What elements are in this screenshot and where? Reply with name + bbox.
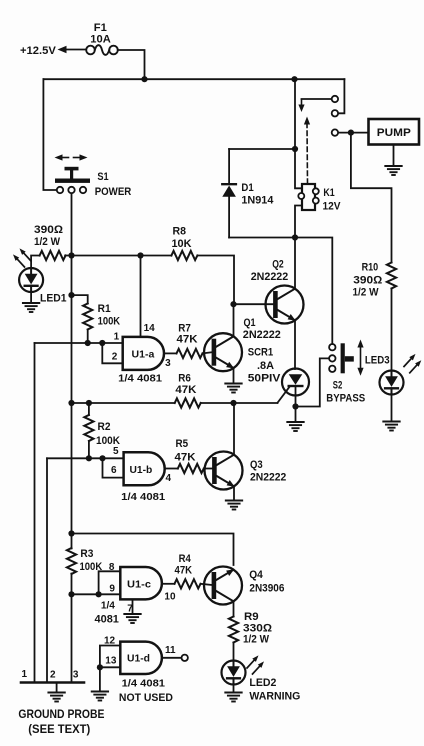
transistor Q2 2N2222 — [266, 286, 304, 324]
ground probe bar — [21, 681, 84, 684]
ground below LED1 — [30, 292, 32, 303]
node Q2 base junction — [230, 301, 236, 307]
svg-text:S1: S1 — [97, 171, 108, 183]
LED3 — [380, 371, 404, 395]
svg-text:4: 4 — [166, 473, 172, 484]
wire: U1-a output to R7 — [164, 352, 176, 354]
svg-text:1: 1 — [114, 332, 120, 343]
gate U1-c — [120, 567, 162, 599]
ground below pump — [393, 145, 395, 167]
wire Q3 emitter to ground — [233, 487, 235, 501]
op-amp gate U1-a — [123, 337, 164, 370]
svg-text:2: 2 — [112, 352, 118, 363]
pushbutton S2 plunger — [341, 343, 345, 373]
svg-text:POWER: POWER — [95, 186, 132, 198]
svg-text:U1-c: U1-c — [127, 580, 151, 591]
wire to Q4 emitter — [72, 534, 234, 566]
svg-text:R3: R3 — [80, 548, 93, 560]
wire pin 14 — [140, 256, 142, 338]
svg-text:7: 7 — [127, 604, 133, 615]
svg-text:1/2 W: 1/2 W — [353, 287, 380, 299]
svg-text:12: 12 — [104, 636, 116, 647]
svg-text:390Ω: 390Ω — [353, 275, 383, 287]
ground below LED3 — [391, 395, 393, 422]
wire to R1 — [72, 295, 88, 303]
wire: D1 top branch — [294, 79, 296, 149]
svg-text:47K: 47K — [175, 452, 196, 464]
svg-text:D1: D1 — [241, 182, 253, 194]
node: rail/R6 wire — [68, 400, 74, 406]
gate U1-d — [120, 642, 162, 674]
+12.5V arrow — [64, 49, 86, 51]
svg-text:1/4 4081: 1/4 4081 — [121, 492, 165, 503]
svg-text:NOT USED: NOT USED — [119, 692, 173, 704]
wire fuse to rail — [118, 50, 145, 79]
svg-text:Q4: Q4 — [249, 569, 263, 581]
svg-text:R8: R8 — [173, 226, 187, 238]
wire pin 7 to ground — [132, 599, 134, 614]
svg-text:2N2222: 2N2222 — [251, 271, 289, 283]
svg-text:47K: 47K — [175, 384, 196, 396]
svg-text:U1-b: U1-b — [130, 465, 153, 476]
resistor R6 47K — [175, 398, 201, 407]
transistor Q4 2N3906 — [204, 567, 242, 605]
wire Q2 collector up — [294, 238, 296, 289]
svg-text:2N2222: 2N2222 — [243, 329, 281, 341]
wire: down to switch S1 — [43, 79, 55, 190]
wire: U1-b pin5 input — [47, 457, 124, 459]
svg-text:R10: R10 — [362, 262, 379, 274]
svg-text:11: 11 — [165, 645, 176, 656]
svg-text:+12.5V: +12.5V — [20, 45, 56, 57]
wire: y=255.5 to R8 — [72, 255, 172, 257]
wire: U1-c output to R4 — [162, 583, 175, 585]
svg-text:Q1: Q1 — [244, 317, 256, 329]
node: SCR gate / Q3 collector — [230, 400, 236, 406]
svg-text:9: 9 — [109, 584, 115, 595]
node: pin2 tie — [99, 340, 105, 346]
LED1 — [19, 268, 43, 292]
svg-text:390Ω: 390Ω — [34, 224, 64, 236]
svg-text:F1: F1 — [94, 22, 107, 34]
resistor R5 47K — [178, 464, 204, 473]
wire y=403 to R6 — [72, 402, 175, 404]
wire pin 6 stub — [103, 458, 124, 477]
svg-text:47K: 47K — [177, 334, 198, 346]
svg-text:50PIV: 50PIV — [248, 373, 281, 385]
svg-text:R2: R2 — [98, 421, 111, 433]
svg-text:K1: K1 — [323, 187, 334, 199]
svg-text:5: 5 — [113, 446, 119, 457]
LED2 — [222, 661, 246, 685]
LED1 emission arrows — [13, 254, 25, 267]
svg-text:1: 1 — [22, 669, 28, 680]
wire: U1-c pin9 input — [72, 593, 121, 595]
svg-text:PUMP: PUMP — [377, 127, 411, 139]
svg-text:BYPASS: BYPASS — [326, 393, 365, 405]
resistor R3 100K (in rail) — [67, 548, 76, 574]
wire: main left rail — [71, 194, 73, 549]
svg-text:Q2: Q2 — [272, 259, 284, 271]
svg-text:1/2 W: 1/2 W — [243, 634, 270, 646]
pushbutton S2 contacts — [329, 344, 335, 350]
svg-text:13: 13 — [105, 656, 117, 667]
node: SCR cathode — [292, 403, 298, 409]
svg-text:WARNING: WARNING — [249, 691, 300, 703]
relay coil K1 12V — [302, 184, 315, 210]
svg-text:R1: R1 — [98, 303, 111, 315]
svg-text:U1-a: U1-a — [132, 350, 155, 361]
wire pin 2 stub — [102, 343, 122, 363]
svg-text:S2: S2 — [333, 380, 343, 392]
node: relay branch junction — [291, 76, 297, 82]
wire: probe line 2 — [46, 458, 48, 682]
wire: +12V horizontal rail — [43, 78, 344, 80]
node: rail/R1 junction — [68, 292, 74, 298]
relay linkage dashed — [306, 124, 309, 184]
wire pin 13 stub — [100, 666, 120, 668]
wire Q4 collector down to R9 — [233, 601, 235, 616]
wire Q2 emitter to SCR — [294, 320, 296, 369]
wire Q2 base — [234, 303, 274, 305]
svg-text:R6: R6 — [178, 373, 191, 385]
node: R2 top — [86, 400, 92, 406]
resistor R9 330ohm — [229, 617, 238, 643]
resistor R8 10K — [171, 251, 197, 260]
wire: 390ohm branch at y=255.5 — [65, 255, 71, 257]
wire pin 12 stub — [100, 646, 120, 692]
ground below probe bar — [56, 683, 58, 693]
svg-text:100K: 100K — [98, 316, 121, 328]
ground below SCR — [295, 407, 297, 423]
wire: probe line 1 — [34, 343, 36, 683]
resistor R7 47K — [177, 349, 203, 358]
svg-text:1/2 W: 1/2 W — [34, 236, 61, 248]
svg-text:SCR1: SCR1 — [248, 347, 273, 359]
svg-text:1/4 4081: 1/4 4081 — [118, 374, 162, 385]
wire: U1-d output pin 11 — [162, 657, 181, 659]
svg-text:LED2: LED2 — [249, 677, 276, 689]
transistor Q3 2N2222 — [205, 452, 243, 490]
wire: U1-a pin1 input — [35, 342, 123, 344]
resistor R10 390ohm — [387, 263, 396, 289]
diode D1 1N914 — [222, 183, 236, 185]
svg-text:Q3: Q3 — [250, 459, 263, 471]
fuse F1 — [86, 46, 95, 55]
svg-text:LED1: LED1 — [40, 293, 67, 305]
svg-text:R9: R9 — [244, 611, 259, 623]
LED3 emission arrows — [404, 354, 416, 367]
ground Q3 — [226, 501, 242, 510]
svg-text:1/4: 1/4 — [101, 601, 115, 612]
svg-text:1N914: 1N914 — [241, 195, 274, 207]
svg-text:(SEE TEXT): (SEE TEXT) — [28, 724, 90, 736]
ground U1-c pin7 — [124, 614, 140, 623]
ground below LED2 — [233, 685, 235, 693]
svg-text:2: 2 — [50, 670, 56, 681]
ground Q1 — [225, 384, 241, 393]
node: fuse/rail junction — [141, 76, 147, 82]
svg-text:R5: R5 — [176, 438, 189, 450]
svg-text:10: 10 — [164, 592, 176, 603]
resistor 390ohm (LED1) — [40, 251, 66, 260]
PUMP box — [369, 119, 420, 145]
node: rail/390 junction — [68, 252, 74, 258]
resistor R2 100K — [88, 403, 90, 415]
relay contacts K1 — [332, 96, 338, 102]
wire: relay coil feed — [295, 149, 302, 188]
node: rail/Q4 wire — [68, 530, 74, 536]
svg-text:47K: 47K — [175, 565, 193, 577]
node: pin14 junction — [137, 252, 143, 258]
wire Q1 emitter to ground — [233, 368, 235, 384]
svg-text:3: 3 — [165, 358, 171, 369]
wire: U1-b output to R5 — [165, 468, 178, 470]
wire: S2 top contact up to relay node — [295, 238, 332, 345]
svg-text:14: 14 — [144, 323, 156, 334]
node: pump branch — [348, 130, 354, 136]
svg-text:R4: R4 — [179, 553, 192, 565]
svg-text:1/4 4081: 1/4 4081 — [122, 679, 166, 690]
svg-text:2N2222: 2N2222 — [250, 472, 286, 484]
gate U1-b — [124, 452, 165, 485]
resistor R4 47K — [175, 579, 201, 588]
svg-text:6: 6 — [111, 465, 117, 476]
svg-text:10A: 10A — [90, 34, 111, 46]
svg-text:12V: 12V — [323, 201, 342, 213]
transistor Q1 2N2222 — [204, 333, 242, 371]
svg-text:LED3: LED3 — [365, 355, 390, 367]
ground U1-d — [92, 692, 108, 701]
LED2 emission arrows — [247, 655, 259, 668]
wire: relay coil bottom — [295, 206, 302, 238]
switch S1 slide arrow — [60, 157, 69, 159]
wire pin 8 stub — [99, 571, 121, 594]
node: R2/pin5 — [86, 455, 92, 461]
svg-text:2N3906: 2N3906 — [249, 583, 284, 595]
node: R1/pin1 — [85, 340, 91, 346]
resistor R1 100K — [83, 304, 92, 330]
wire: to R10 — [351, 133, 392, 263]
relay contact wires — [302, 98, 332, 100]
node: rail/pin9 — [68, 591, 74, 597]
SCR gate wire — [278, 387, 290, 403]
wire: S2 middle contact to SCR cathode — [296, 358, 330, 406]
S2 arrow — [360, 345, 362, 370]
switch S1 contacts — [57, 187, 63, 193]
wire Q3 collector up — [233, 403, 235, 455]
svg-text:3: 3 — [73, 670, 79, 681]
svg-text:10K: 10K — [172, 238, 192, 250]
svg-text:8: 8 — [109, 562, 115, 573]
switch S1 bar — [55, 179, 90, 183]
svg-text:4081: 4081 — [95, 614, 119, 626]
svg-text:U1-d: U1-d — [127, 654, 150, 665]
wire Q1 collector up — [233, 304, 235, 336]
svg-text:.8A: .8A — [257, 360, 274, 372]
SCR1 — [282, 369, 309, 396]
svg-text:GROUND PROBE: GROUND PROBE — [18, 709, 104, 721]
wire: D1 bottom to node — [229, 237, 295, 239]
